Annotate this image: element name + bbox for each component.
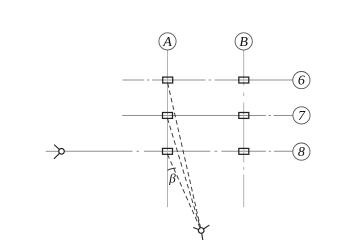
angle arc beta (168, 168, 176, 170)
column marker B7 (239, 113, 249, 119)
wire axis B vertical centerline (243, 50, 245, 207)
svg-text:B: B (239, 35, 248, 50)
axis bubble B (235, 33, 252, 50)
station S2 (bottom theodolite point) (193, 225, 209, 240)
svg-text:8: 8 (298, 145, 305, 160)
axis bubble 6 (293, 72, 310, 89)
svg-text:A: A (162, 35, 172, 50)
axis bubble 8 (293, 143, 310, 160)
wire row 6 centerline (122, 79, 292, 81)
wire sight ray A7 to station (dashed) (168, 119, 202, 231)
axis bubble 7 (293, 107, 310, 124)
column marker A6 (163, 77, 173, 83)
column marker B8 (239, 148, 249, 154)
wire sight ray A8 to station (dashed) (168, 154, 202, 230)
column marker A7 (163, 113, 173, 119)
wire row 7 centerline (122, 115, 293, 117)
wire row 8 centerline (46, 150, 293, 152)
column marker B6 (239, 77, 249, 83)
svg-text:β: β (168, 171, 176, 186)
wire sight ray A6 to station (dashed) (168, 83, 202, 230)
wire axis A vertical centerline (167, 50, 169, 207)
svg-text:6: 6 (298, 74, 305, 89)
axis bubble A (159, 33, 176, 50)
svg-text:7: 7 (298, 109, 306, 124)
station S1 (left theodolite point) (54, 145, 64, 159)
column marker A8 (163, 148, 173, 154)
